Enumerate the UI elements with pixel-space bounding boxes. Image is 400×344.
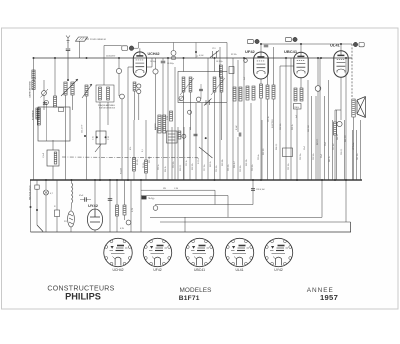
terminal E1	[116, 68, 121, 73]
resistor R10	[246, 86, 249, 100]
wire bus line f	[219, 47, 221, 180]
terminal dark circle	[129, 46, 134, 51]
wire choke to fuse	[70, 203, 73, 211]
svg-text:R20 1k: R20 1k	[210, 161, 212, 167]
svg-text:R44 50: R44 50	[337, 134, 339, 140]
svg-text:POUR ONDES M: POUR ONDES M	[90, 39, 106, 41]
wire C8 up	[200, 84, 202, 89]
svg-text:R38 150: R38 150	[308, 125, 310, 132]
resistor R6	[133, 158, 136, 171]
resistor R4	[53, 96, 56, 107]
wire R19 up	[56, 180, 58, 210]
junction	[116, 179, 118, 181]
wire V2 cathode down	[260, 79, 262, 84]
wire bus line l	[156, 127, 158, 180]
wire S2 down	[36, 189, 38, 225]
svg-text:UCH42: UCH42	[112, 268, 123, 272]
junction	[140, 179, 142, 181]
wire bus line j	[243, 58, 245, 180]
variable capacitor CV2 arrow	[82, 84, 92, 98]
svg-text:C8 112p: C8 112p	[216, 61, 223, 63]
resistor R8	[170, 111, 173, 121]
wire R7 to bus	[145, 173, 147, 180]
wire bus line q	[189, 127, 191, 180]
svg-text:1957: 1957	[320, 293, 338, 302]
resistor R1	[32, 70, 35, 79]
terminal E2	[120, 94, 125, 99]
resistor R9	[178, 131, 181, 139]
wire mains left lead	[30, 180, 32, 232]
wire R20 up	[116, 180, 118, 205]
junction	[260, 179, 262, 181]
wire R19 down	[56, 217, 58, 233]
wire bus line o	[177, 127, 179, 180]
svg-text:R18 10k: R18 10k	[192, 163, 194, 170]
wire V3 cathode down	[300, 78, 302, 88]
terminal pot tap	[188, 110, 192, 114]
wire C12 left	[80, 199, 85, 201]
switch S2 blade	[37, 225, 43, 232]
terminal osc out	[244, 59, 248, 63]
svg-text:S 0,1uF: S 0,1uF	[198, 157, 200, 164]
svg-text:C30 4n: C30 4n	[258, 154, 260, 160]
wire to R6	[133, 120, 135, 158]
svg-text:UY42: UY42	[88, 203, 99, 208]
trimmer arrow T2b	[211, 78, 225, 95]
svg-text:TA 2(y): TA 2(y)	[148, 197, 155, 200]
svg-text:PHILIPS: PHILIPS	[65, 292, 101, 302]
wire jack up	[43, 80, 45, 91]
resistor R10b	[239, 87, 242, 101]
wire HT distribution	[319, 58, 321, 180]
inductor L1a	[37, 108, 40, 125]
oscillator padder F1	[171, 51, 176, 56]
wire V5 cathode down	[94, 230, 96, 232]
terminal TB	[153, 206, 158, 211]
resistor R16	[300, 88, 303, 101]
svg-text:MODELES: MODELES	[180, 287, 212, 294]
tube V1 UCH42 triode-heptode	[133, 52, 146, 77]
inductor T3 primary	[352, 99, 355, 117]
svg-text:R14 2k: R14 2k	[165, 166, 167, 172]
tube V4 UL41 output pentode	[334, 51, 348, 77]
wire avc line	[279, 66, 281, 180]
svg-text:R32 1M: R32 1M	[263, 148, 265, 155]
wire L9 up	[214, 58, 216, 72]
junction	[33, 57, 35, 59]
inductor L2 osc coil	[64, 82, 67, 95]
terminal dark circle 4B1	[353, 42, 357, 46]
tube V2 UF42 IF pentode	[254, 52, 269, 79]
resistor R18	[334, 122, 337, 135]
svg-text:C21 47n: C21 47n	[228, 164, 230, 171]
junction	[71, 179, 73, 181]
resistor R13	[266, 85, 269, 99]
svg-text:R22 68k: R22 68k	[222, 159, 224, 166]
svg-text:R16 0,1: R16 0,1	[180, 165, 182, 171]
wire HT distribution	[290, 58, 292, 180]
wire chassis bus	[30, 179, 362, 181]
resistor R14	[272, 85, 275, 99]
trimmer CT2	[204, 99, 212, 106]
wire terminal riser	[137, 43, 139, 49]
wire HT distribution	[261, 120, 263, 180]
terminal label box S1	[248, 39, 254, 43]
wire anode top	[104, 45, 122, 47]
switch S2 box	[35, 185, 39, 189]
svg-text:R42 1k: R42 1k	[329, 156, 331, 162]
IF transformer T2 box	[178, 72, 227, 103]
wire g1 lead	[128, 66, 133, 68]
capacitor C9	[264, 45, 269, 47]
svg-text:C9 50n: C9 50n	[143, 162, 145, 168]
wire HT distribution	[336, 110, 338, 180]
terminal label box UY	[122, 46, 128, 51]
wire E1 up	[118, 58, 120, 68]
wire C1 to tuner	[67, 51, 69, 80]
resistor R2	[32, 81, 35, 90]
wire V5 anode up	[94, 180, 96, 209]
trimmer arrow T2a	[180, 78, 194, 95]
wire box to bus	[52, 166, 54, 180]
svg-text:C26 4,7nF: C26 4,7nF	[256, 189, 266, 191]
junction L4 tap	[84, 135, 86, 137]
wire choke up	[71, 180, 73, 183]
svg-text:C25 50n: C25 50n	[252, 164, 254, 171]
terminal k1	[137, 84, 141, 88]
svg-text:C11 5n: C11 5n	[158, 164, 160, 170]
wire R12 to bus	[260, 98, 262, 180]
tube V3 UBC41 detector	[294, 52, 308, 78]
terminal P jack	[337, 121, 342, 126]
svg-text:C15 2n: C15 2n	[186, 160, 188, 166]
svg-text:UBC41: UBC41	[194, 268, 205, 272]
variable capacitor CV1 arrow	[61, 79, 78, 96]
junction	[296, 179, 298, 181]
fuse F1 oval	[68, 211, 75, 227]
svg-text:R24 4k7: R24 4k7	[234, 161, 236, 168]
svg-text:R12 1M: R12 1M	[149, 156, 151, 163]
loudspeaker LS1	[357, 97, 366, 118]
svg-text:C27 4n: C27 4n	[268, 116, 270, 122]
switch S1 diagonal	[199, 147, 213, 158]
wire drop 228	[227, 196, 229, 218]
svg-text:UL41: UL41	[235, 268, 243, 272]
potentiometer P1	[179, 96, 184, 101]
junction	[345, 179, 347, 181]
wire tap line 3	[155, 204, 253, 206]
junction	[36, 209, 38, 211]
svg-text:C33 25n: C33 25n	[300, 153, 302, 160]
wire to R7	[145, 120, 147, 160]
wire drop 253	[252, 180, 254, 205]
svg-text:0,1uF: 0,1uF	[236, 124, 238, 130]
wire V4 anode up	[340, 44, 342, 51]
terminal dark circle F3	[293, 37, 297, 41]
wire osc drop	[195, 43, 197, 59]
wire pickup lead	[85, 38, 89, 40]
switch blade BP1	[95, 145, 101, 153]
wire R13 to bus	[267, 99, 269, 180]
inductor L9	[213, 77, 216, 92]
wire anode dashed link	[351, 44, 353, 97]
wire R20 down	[116, 216, 118, 232]
wire bus line n	[171, 127, 173, 180]
junction	[334, 179, 336, 181]
wire k tap	[335, 109, 341, 111]
junction	[345, 57, 347, 59]
svg-text:R7 47k: R7 47k	[137, 159, 139, 165]
wire R18 to bus	[334, 135, 336, 180]
inductor L13	[163, 115, 166, 133]
junction	[99, 179, 101, 181]
svg-text:110/220V: 110/220V	[106, 56, 116, 58]
wire osc down	[155, 74, 157, 130]
junction mains	[30, 206, 32, 208]
wire 6v drop	[130, 180, 132, 232]
wire drop 215	[214, 190, 216, 204]
wire R6 to bus	[133, 171, 135, 180]
junction	[317, 57, 319, 59]
potentiometer block	[167, 131, 178, 143]
wire C6 bottom	[162, 64, 164, 131]
junction	[45, 179, 47, 181]
resistor R11	[252, 86, 255, 100]
junction	[214, 179, 216, 181]
wire g1 down	[127, 67, 129, 180]
svg-text:PO: PO	[64, 221, 67, 223]
svg-text:UY42: UY42	[274, 268, 283, 272]
junction	[252, 179, 254, 181]
wire corner drop	[350, 222, 352, 232]
junction osc	[195, 51, 197, 53]
wire L7 up	[183, 58, 185, 72]
wire HT distribution	[328, 80, 330, 180]
padder box BP1	[96, 131, 106, 144]
resistor R5	[54, 152, 57, 164]
socket diagram V1	[104, 238, 132, 266]
wire smoothing drop	[109, 180, 111, 232]
junction	[54, 57, 56, 59]
wire antenna down	[67, 42, 69, 48]
wire LP1 down	[45, 195, 47, 232]
wire HT distribution	[324, 96, 326, 180]
wire under tube b	[138, 94, 140, 120]
terminal lamp jack	[126, 220, 131, 225]
svg-text:R40 0,1: R40 0,1	[317, 139, 319, 145]
svg-text:47k: 47k	[130, 147, 132, 150]
wire bus line h	[232, 58, 234, 180]
junction	[243, 57, 245, 59]
wire bus line k	[250, 103, 252, 180]
junction	[109, 179, 111, 181]
wire bus line d	[201, 103, 203, 180]
svg-text:C29 50n: C29 50n	[280, 123, 282, 130]
wire tube top lead	[139, 48, 141, 52]
junction	[340, 43, 342, 45]
wire avc tap	[280, 65, 294, 67]
terminal label box 4B1	[359, 42, 364, 46]
wire anode lead	[147, 66, 152, 68]
wire jack down2	[317, 91, 319, 180]
inductor L3 ant coil	[71, 82, 74, 95]
terminal osc test	[153, 69, 158, 74]
wire HT distribution	[352, 130, 354, 180]
wire jack down	[43, 95, 45, 110]
wire bus line p	[183, 127, 185, 180]
wire L9 to bus	[214, 92, 216, 180]
wire top right rail	[261, 43, 352, 45]
svg-text:R26 22k: R26 22k	[246, 159, 248, 166]
wire screen line	[285, 58, 287, 180]
capacitor C6	[161, 61, 166, 63]
svg-text:ELECTRO: ELECTRO	[272, 119, 274, 128]
svg-text:SELF DE CHOC: SELF DE CHOC	[30, 185, 32, 200]
wire bus line m	[162, 127, 164, 180]
trimmer box T1a	[59, 108, 64, 112]
wire HT distribution	[311, 96, 313, 180]
wire R14 to bus	[273, 99, 275, 180]
wire L10 down	[221, 92, 223, 140]
wire HT distribution	[344, 120, 346, 180]
svg-text:C31 4,7nF: C31 4,7nF	[82, 124, 84, 133]
terminal dark circle S1	[255, 39, 259, 43]
inductor L11 heater choke	[72, 183, 73, 203]
wire L7 to bus	[183, 92, 185, 180]
lamp LP1	[44, 190, 49, 195]
svg-text:R2 20k: R2 20k	[231, 54, 237, 56]
socket diagram V5	[264, 238, 292, 266]
wire L3 down	[72, 95, 74, 110]
antenna	[66, 36, 70, 44]
wire drop 185	[184, 217, 186, 232]
wire g2 line	[345, 58, 347, 180]
junction	[118, 57, 120, 59]
potentiometer P2	[196, 97, 200, 101]
terminal label box F3	[286, 37, 292, 41]
wire F1 up	[173, 43, 175, 51]
svg-text:R34 0,5: R34 0,5	[276, 144, 278, 150]
terminal k2	[137, 89, 141, 93]
svg-text:BOBINE: BOBINE	[155, 122, 157, 130]
junction	[260, 43, 262, 45]
inductor L10	[220, 77, 223, 92]
wire R21 up	[124, 180, 126, 205]
component box C2 filter	[47, 150, 59, 166]
wire HT distribution	[360, 120, 362, 180]
svg-text:6,3V: 6,3V	[132, 207, 134, 212]
antenna plate PU	[76, 37, 88, 41]
wire box link	[52, 140, 54, 150]
wire bus line a	[167, 58, 169, 180]
svg-text:REG: REG	[295, 107, 300, 109]
wire anode up	[151, 58, 153, 67]
svg-text:C37 8uF: C37 8uF	[333, 142, 335, 150]
wire S2 up	[36, 180, 38, 185]
IF transformer T1 box	[96, 85, 114, 102]
capacitor C8	[199, 89, 203, 90]
inductor L10 top	[219, 65, 222, 77]
svg-text:BOBINAGE: BOBINAGE	[32, 109, 35, 120]
svg-text:C31 10n: C31 10n	[288, 163, 290, 170]
wire top HT rail	[34, 57, 353, 59]
resistor R6b	[133, 82, 136, 91]
svg-text:C41 10n: C41 10n	[357, 153, 359, 160]
svg-text:1,5nF: 1,5nF	[43, 152, 45, 158]
wire drop 346	[345, 180, 347, 222]
resistor R15	[294, 88, 297, 101]
wire E2 to bus	[121, 99, 123, 180]
svg-text:C 26: C 26	[108, 136, 110, 140]
wire fuse down	[70, 227, 72, 232]
wire LP1 up	[45, 180, 47, 190]
wire under tube a	[134, 91, 136, 120]
junction	[300, 43, 302, 45]
wire drop 322	[321, 180, 323, 217]
resistor R10a	[233, 87, 236, 101]
wire rail drop 227	[226, 43, 228, 72]
wire mains bottom rail	[31, 231, 352, 233]
junction	[127, 179, 129, 181]
wire HT return 2	[150, 216, 322, 218]
svg-text:C19 10n: C19 10n	[216, 165, 218, 172]
potentiometer P1 arrow	[179, 96, 184, 101]
inductor L5	[99, 87, 102, 100]
wire tap line 1	[141, 189, 215, 191]
wire R4 up	[54, 58, 56, 96]
padder box	[229, 67, 234, 74]
wire to R18	[334, 110, 336, 122]
socket diagram V2	[143, 238, 171, 266]
terminal pickup jack	[315, 86, 321, 92]
svg-text:UF42: UF42	[245, 49, 256, 54]
svg-text:5W: 5W	[163, 188, 166, 190]
svg-text:B1F71: B1F71	[179, 295, 200, 302]
inductor L4	[85, 85, 88, 96]
capacitor C15	[239, 133, 241, 137]
wire jack up2	[317, 58, 319, 86]
wire terminal link	[134, 47, 139, 49]
junction	[86, 57, 88, 59]
svg-text:C23 20n: C23 20n	[240, 165, 242, 172]
svg-text:C13 50n: C13 50n	[173, 161, 175, 168]
tube V5 UY42 rectifier	[87, 209, 102, 230]
capacitor C11	[251, 189, 255, 191]
frame antenna box L1	[38, 107, 70, 141]
wire bus line e	[207, 58, 209, 180]
svg-text:C 25: C 25	[93, 136, 95, 140]
terminal block TA	[142, 196, 147, 199]
junction BP1 left	[96, 136, 98, 138]
inductor L7	[182, 77, 185, 92]
junction	[285, 57, 287, 59]
resistor R3	[36, 108, 39, 119]
wire C6 top	[162, 58, 164, 61]
capacitor C1 antenna	[66, 49, 71, 51]
junction	[320, 57, 322, 59]
wire T3 to bus	[353, 117, 355, 180]
svg-text:R 0,1M: R 0,1M	[121, 168, 123, 174]
resistor R7	[145, 160, 148, 173]
junction BP1 right	[105, 136, 107, 138]
wire V4 cathode down	[340, 77, 342, 120]
wire bus line b	[174, 67, 176, 180]
wire E1 down	[118, 74, 120, 96]
resistor R21	[123, 205, 126, 215]
wire L5 to bus	[99, 102, 101, 180]
wire L6 down	[107, 102, 109, 125]
resistor R20	[116, 205, 119, 216]
